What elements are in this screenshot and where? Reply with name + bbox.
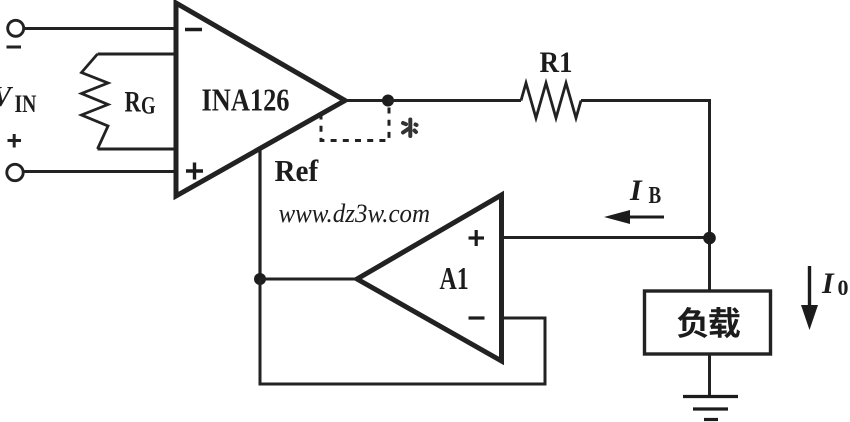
junction node on Ref line — [254, 273, 266, 285]
wire RG bottom bracket — [98, 148, 177, 151]
minus polarity label — [7, 46, 22, 49]
IB current label — [629, 174, 643, 207]
load label 载 — [709, 307, 740, 338]
svg-text:I: I — [629, 174, 643, 207]
R1 label — [540, 47, 573, 80]
dashed gain-select box — [321, 108, 389, 141]
Vin label — [0, 82, 14, 113]
svg-text:G: G — [141, 91, 156, 119]
RG label — [125, 84, 142, 118]
minus input marker — [185, 28, 202, 31]
load box — [645, 291, 771, 354]
Ref label — [275, 153, 320, 188]
op-amp A1 — [357, 195, 502, 361]
svg-text:B: B — [649, 182, 662, 209]
feedback wire A1 minus input loop — [260, 279, 545, 384]
wire node to R1 — [388, 99, 521, 102]
watermark — [279, 199, 431, 229]
svg-text:0: 0 — [838, 275, 849, 300]
A1 minus input marker — [469, 316, 485, 319]
svg-text:R: R — [125, 84, 142, 118]
wire RG top bracket — [98, 53, 177, 56]
wire junction to A1 output apex — [260, 278, 358, 281]
node output junction — [382, 95, 394, 107]
svg-text:I: I — [821, 267, 835, 300]
load label 负 — [678, 307, 708, 338]
svg-text:www.dz3w.com: www.dz3w.com — [279, 199, 431, 229]
svg-text:A1: A1 — [440, 262, 469, 297]
svg-text:R1: R1 — [540, 47, 573, 80]
svg-text:INA126: INA126 — [202, 83, 290, 118]
plus polarity label — [8, 139, 22, 142]
wire R1 to load branch (right and down) — [581, 101, 710, 292]
ground — [683, 397, 738, 420]
resistor RG — [82, 54, 109, 149]
wire Ref pin down — [258, 149, 261, 279]
plus input marker — [186, 169, 203, 172]
svg-text:IN: IN — [15, 90, 37, 118]
wire INA126 output to node — [345, 99, 388, 102]
A1 label — [440, 262, 469, 297]
input terminal (minus) — [8, 20, 24, 36]
INA126 label — [202, 83, 290, 118]
IB current arrow — [628, 216, 664, 219]
svg-text:Ref: Ref — [275, 153, 320, 188]
wire bottom input to INA126 — [24, 170, 177, 173]
input terminal (plus) — [7, 164, 23, 180]
I0 current arrow — [808, 266, 811, 308]
resistor R1 — [521, 83, 581, 118]
wire top input to INA126 — [23, 27, 178, 30]
node load junction — [703, 232, 716, 245]
asterisk marker — [403, 120, 417, 137]
wire load to ground — [708, 354, 711, 396]
A1 plus input marker — [469, 236, 485, 239]
op-amp U1 INA126 — [176, 3, 345, 196]
wire A1 plus input to load node — [502, 236, 711, 239]
I0 current label — [821, 267, 835, 300]
